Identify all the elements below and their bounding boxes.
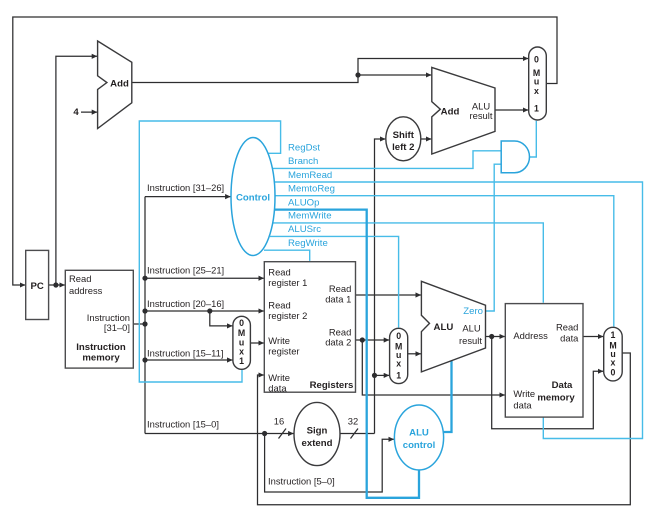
AND gate [501, 141, 529, 173]
wire Read data 2 to ALU-src mux input 0 [356, 339, 390, 341]
wire ALUOp to ALU control [275, 210, 419, 498]
svg-text:Add: Add [110, 78, 129, 89]
slash 32 [351, 429, 359, 439]
node instr bus [15-11] [142, 357, 147, 362]
svg-text:memory: memory [82, 353, 120, 364]
wire Sign extend output [340, 433, 375, 435]
wire branch to second Add top input [358, 74, 431, 76]
wire ALU-src mux output to ALU [408, 353, 421, 355]
ALU control [394, 405, 443, 470]
control unit [231, 138, 275, 256]
svg-text:Write: Write [268, 372, 290, 383]
svg-text:x: x [534, 86, 539, 96]
svg-text:Read: Read [329, 283, 351, 294]
svg-text:0: 0 [611, 368, 616, 378]
node instr bus main [142, 321, 147, 326]
svg-text:extend: extend [302, 438, 333, 449]
wire write-back loop to Registers write data [258, 353, 631, 505]
wire ALU control output to ALU [444, 360, 452, 432]
shift left 2 [386, 117, 421, 161]
wire RegDst from Control around left to write-register mux select [139, 121, 280, 382]
wire Instruction [5-0] to ALU control [265, 434, 394, 493]
svg-text:Instruction [5–0]: Instruction [5–0] [268, 476, 335, 487]
wire MemRead to Data memory bottom [274, 182, 643, 439]
svg-text:u: u [534, 77, 539, 87]
svg-text:result: result [470, 110, 493, 121]
junction nodes [53, 72, 494, 436]
wire Read data 2 branch to Data memory write data [362, 340, 505, 395]
svg-text:result: result [459, 335, 482, 346]
wire Instruction memory output [133, 323, 145, 325]
svg-text:Branch: Branch [288, 156, 318, 167]
node branch adder tee [355, 72, 360, 77]
svg-text:Write: Write [513, 388, 535, 399]
svg-text:Shift: Shift [393, 130, 415, 141]
wire constant 4 into Add [81, 111, 97, 113]
svg-text:ALUSrc: ALUSrc [288, 224, 321, 235]
svg-text:ALUOp: ALUOp [288, 197, 319, 208]
svg-text:register 1: register 1 [268, 277, 307, 288]
wire PC to Instruction memory read address [49, 284, 65, 286]
svg-text:register: register [268, 346, 299, 357]
svg-text:Read: Read [69, 273, 91, 284]
svg-text:4: 4 [73, 107, 79, 118]
svg-text:data 2: data 2 [325, 337, 351, 348]
svg-text:Sign: Sign [307, 426, 328, 437]
svg-text:16: 16 [274, 416, 284, 427]
registers [264, 262, 355, 394]
svg-text:Control: Control [236, 193, 270, 204]
svg-text:1: 1 [239, 356, 244, 366]
svg-text:Read: Read [556, 322, 578, 333]
wire Instruction [25-21] to Read register 1 [145, 277, 264, 279]
data memory [505, 304, 583, 418]
wire RegWrite to Registers top [264, 250, 310, 261]
ALU-src mux [390, 328, 408, 383]
instruction field labels [147, 182, 335, 487]
svg-text:Read: Read [268, 300, 290, 311]
branch-target mux (top right) [529, 47, 547, 120]
wire Shift left 2 output to second Add [421, 138, 432, 140]
node instr bus [20-16] [142, 308, 147, 313]
svg-text:data: data [268, 383, 287, 394]
svg-text:ALU: ALU [462, 323, 480, 334]
svg-text:RegDst: RegDst [288, 142, 320, 153]
instruction memory [65, 270, 133, 368]
svg-text:x: x [396, 359, 401, 369]
wire Instruction [31-26] to Control [145, 196, 231, 198]
svg-text:Instruction [20–16]: Instruction [20–16] [147, 298, 224, 309]
svg-text:register 2: register 2 [268, 310, 307, 321]
wire Zero to AND gate [486, 164, 502, 311]
node ALU result tee [489, 334, 494, 339]
svg-text:MemWrite: MemWrite [288, 211, 332, 222]
wire PC up to Add [56, 56, 97, 285]
svg-text:MemRead: MemRead [288, 170, 332, 181]
svg-text:Data: Data [552, 380, 573, 391]
svg-text:x: x [239, 346, 244, 356]
svg-text:control: control [403, 440, 436, 451]
sign extend [294, 402, 340, 465]
svg-text:memory: memory [537, 393, 575, 404]
node sign-extend tee [372, 373, 377, 378]
svg-text:0: 0 [396, 331, 401, 341]
wire Instruction [20-16] branch to write-register mux input 0 [210, 311, 233, 326]
wire Data memory read data to right mux input 1 [583, 336, 603, 338]
wire Add output to top-right mux input 0 [132, 59, 528, 83]
svg-text:address: address [69, 285, 103, 296]
node PC out [53, 282, 58, 287]
wire Read data 1 to ALU [356, 294, 421, 296]
wire Instruction [20-16] to Read register 2 [145, 310, 264, 312]
svg-text:0: 0 [534, 55, 539, 65]
svg-text:[31–0]: [31–0] [104, 322, 130, 333]
wire MemWrite to Data memory top [273, 223, 543, 303]
svg-text:Address: Address [513, 330, 548, 341]
svg-text:Instruction [15–0]: Instruction [15–0] [147, 418, 219, 429]
svg-text:0: 0 [239, 318, 244, 328]
wire second Add output to top-right mux input 1 [495, 109, 528, 111]
PC [26, 250, 49, 319]
svg-text:ALU: ALU [434, 322, 454, 333]
wire Instruction [15-0] to Sign extend [145, 433, 294, 435]
svg-text:left 2: left 2 [392, 142, 414, 153]
control signal labels [288, 142, 335, 249]
write-register mux [233, 316, 251, 369]
wire Branch to AND gate [272, 151, 501, 169]
wire MemtoReg to right mux select [275, 196, 614, 327]
node [20-16] tee [207, 308, 212, 313]
adder Add (PC+4) [98, 41, 132, 129]
adder Add (branch target) [432, 67, 495, 154]
wire write-register mux output to Write register [250, 342, 263, 344]
ALU [421, 281, 485, 372]
svg-text:RegWrite: RegWrite [288, 238, 328, 249]
wire PC feedback from top-right mux to PC [13, 17, 557, 285]
svg-text:32: 32 [348, 416, 358, 427]
svg-text:PC: PC [31, 281, 44, 292]
svg-text:1: 1 [534, 104, 539, 114]
wire branch to ALU-src mux input 1 [375, 374, 390, 376]
node instr bus [25-21] [142, 276, 147, 281]
svg-text:Read: Read [268, 267, 290, 278]
svg-text:MemtoReg: MemtoReg [288, 184, 335, 195]
svg-text:Write: Write [268, 335, 290, 346]
svg-text:1: 1 [611, 330, 616, 340]
slash 16 [279, 429, 287, 439]
svg-text:data 1: data 1 [325, 294, 351, 305]
wire ALU result bypass to right mux input 0 [492, 337, 604, 429]
svg-text:Instruction [15–11]: Instruction [15–11] [147, 347, 223, 358]
node [15-0] tee [262, 431, 267, 436]
wire instruction bus vertical [144, 197, 146, 434]
svg-text:data: data [513, 400, 532, 411]
svg-text:Zero: Zero [463, 306, 483, 317]
node read data 2 tee [360, 337, 365, 342]
wire sign-extend vertical up to Shift left 2 [375, 139, 386, 434]
wire AND gate output to top-right mux select [530, 121, 537, 157]
svg-text:x: x [611, 358, 616, 368]
svg-text:Registers: Registers [310, 380, 354, 391]
svg-text:ALU: ALU [409, 428, 429, 439]
svg-text:Add: Add [441, 107, 460, 118]
svg-text:Instruction [31–26]: Instruction [31–26] [147, 182, 224, 193]
write-back mux (right) [604, 327, 623, 381]
wire Instruction [15-11] to write-register mux input 1 [145, 359, 232, 361]
svg-text:Instruction: Instruction [76, 342, 126, 353]
svg-text:Instruction [25–21]: Instruction [25–21] [147, 265, 224, 276]
wire ALUSrc to ALU-src mux select [270, 236, 399, 327]
svg-text:data: data [560, 333, 579, 344]
wire ALU result to Data memory address [486, 336, 505, 338]
svg-text:1: 1 [396, 371, 401, 381]
